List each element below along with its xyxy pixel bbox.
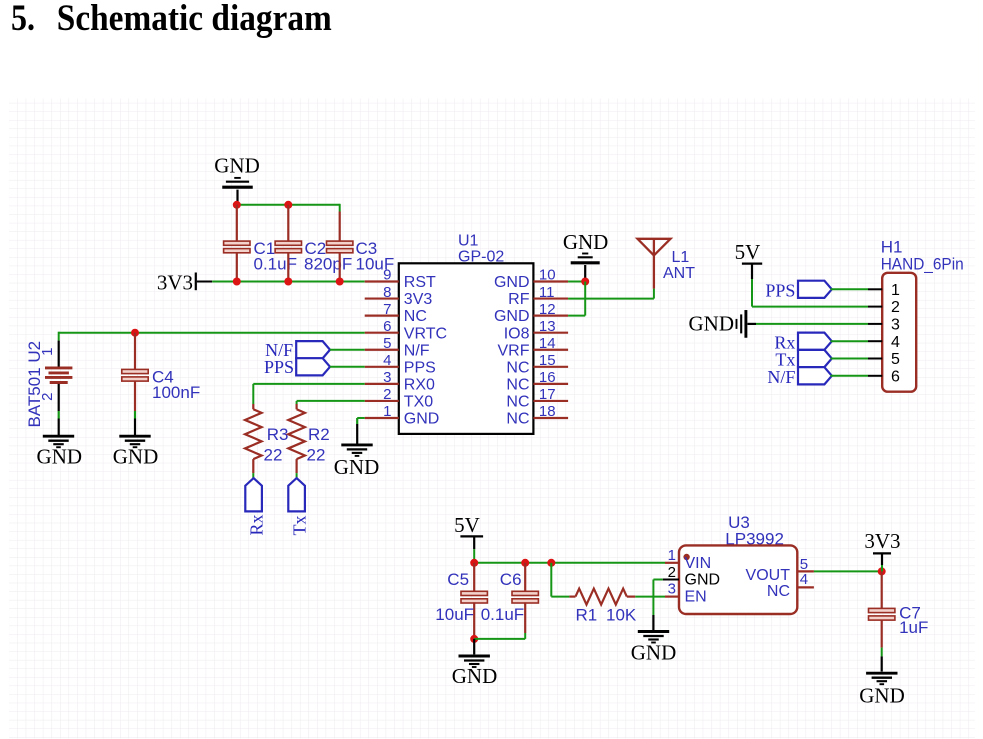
capacitor C6 top lead: [524, 563, 526, 592]
U1 pin 4 line: [365, 366, 399, 368]
net label GND (C7): [859, 684, 905, 708]
U1 pin number 1: [383, 403, 391, 420]
svg-text:R1: R1: [576, 605, 598, 624]
svg-text:1: 1: [891, 282, 900, 299]
U1 pin name GND (right): [494, 274, 530, 291]
svg-text:GND: GND: [404, 411, 440, 428]
wire 3V3 stub: [197, 281, 212, 283]
resistor R2 bottom lead: [296, 459, 298, 473]
net label GND (H1): [689, 312, 735, 336]
value 22 (R3): [264, 445, 283, 464]
value 22 (R2): [307, 445, 326, 464]
value 100nF: [152, 383, 200, 402]
wire RX0 horizontal: [253, 383, 364, 385]
svg-text:L1: L1: [672, 249, 690, 266]
svg-text:5V: 5V: [735, 240, 761, 264]
wire PPS to pin4: [330, 366, 365, 368]
svg-text:GND: GND: [494, 308, 530, 325]
svg-text:17: 17: [539, 386, 556, 403]
svg-text:11: 11: [539, 284, 555, 301]
wire pin1 to ground: [357, 417, 365, 419]
U1 pin name GND: [404, 411, 440, 428]
U3 pin 1 line: [665, 562, 679, 564]
svg-text:R2: R2: [308, 425, 330, 444]
U1 pin name VRTC: [404, 325, 447, 342]
U1 pin name PPS: [404, 359, 436, 376]
label C4: [152, 367, 174, 386]
wire 5V stem (U3): [473, 536, 475, 562]
U1 pin name NC (right): [506, 359, 529, 376]
wire 5V rail to VIN: [474, 562, 665, 564]
wire PPS to H1 pin1: [831, 288, 869, 290]
U1 pin name TX0: [404, 394, 433, 411]
H1 pin 5 line: [868, 358, 882, 360]
svg-text:1: 1: [383, 403, 391, 420]
wire battery rail: [59, 332, 365, 334]
ground U1 pin1: [341, 445, 372, 456]
svg-text:GND: GND: [494, 274, 530, 291]
svg-text:GND: GND: [685, 572, 721, 589]
wire Tx to H1 pin5: [831, 358, 869, 360]
capacitor C3 bottom lead: [339, 252, 341, 281]
wire pin10 to junction: [568, 281, 585, 283]
wire RX0 down: [252, 384, 254, 404]
U1 pin 18 line: [533, 417, 568, 419]
node junction C1 top: [233, 201, 241, 209]
resistor R1 right lead: [627, 595, 636, 597]
capacitor C1 bottom lead: [236, 252, 238, 281]
resistor R3 top lead: [252, 404, 254, 409]
battery pin 2 number: [39, 393, 56, 401]
value 10uF: [356, 255, 395, 274]
svg-text:0.1uF: 0.1uF: [254, 255, 297, 274]
svg-text:C6: C6: [500, 570, 522, 589]
net label GND (C5): [452, 664, 498, 688]
resistor R2: [288, 409, 305, 459]
resistor R2 top lead: [296, 404, 298, 409]
U1 pin name 3V3: [404, 291, 433, 308]
capacitor C2: [275, 241, 301, 253]
svg-text:0.1uF: 0.1uF: [481, 605, 524, 624]
svg-text:GND: GND: [334, 455, 380, 479]
U1 pin 14 line: [533, 349, 568, 351]
capacitor C7 top lead: [881, 571, 883, 608]
U3 pin 4 line: [797, 586, 814, 588]
U1 pin number 7: [383, 301, 391, 318]
designator L1: [672, 249, 690, 266]
wire VOUT to 3V3 node: [814, 570, 882, 572]
svg-text:PPS: PPS: [765, 281, 795, 301]
U1 pin name N/F: [404, 342, 430, 359]
U1 pin 9 line: [365, 280, 399, 282]
U3 pin name VOUT: [746, 567, 791, 584]
svg-text:VOUT: VOUT: [746, 567, 791, 584]
wire to pin12: [568, 315, 585, 317]
svg-text:4: 4: [383, 352, 391, 369]
ground C7: [866, 673, 897, 684]
wire Rx to H1 pin4: [831, 340, 869, 342]
svg-text:4: 4: [891, 334, 900, 351]
designator U2 BAT501: [25, 341, 44, 428]
svg-text:N/F: N/F: [767, 367, 795, 387]
U1 pin number 3: [383, 369, 391, 386]
U3 pin number 1: [668, 547, 676, 564]
port Tx: [288, 478, 305, 511]
svg-text:3: 3: [891, 317, 900, 334]
label C6: [500, 570, 522, 589]
svg-text:NC: NC: [506, 376, 529, 393]
capacitor C1: [224, 241, 250, 253]
wire R1 node down: [550, 563, 552, 597]
svg-text:RX0: RX0: [404, 376, 435, 393]
port N/F (U1): [296, 341, 330, 358]
antenna L1 symbol: [638, 239, 671, 289]
port PPS (U1): [296, 358, 330, 375]
net label GND (pin10): [563, 230, 609, 254]
U1 pin number 2: [383, 386, 391, 403]
svg-text:NC: NC: [506, 394, 529, 411]
U1 pin number 13: [539, 318, 556, 335]
value LP3992: [725, 530, 784, 549]
svg-text:GND: GND: [452, 664, 498, 688]
U1 pin 10 line: [533, 280, 568, 282]
U1 pin 15 line: [533, 366, 568, 368]
svg-text:7: 7: [383, 301, 391, 318]
svg-text:3V3: 3V3: [404, 291, 433, 308]
value HAND_6Pin: [881, 255, 964, 274]
svg-text:U1: U1: [458, 232, 479, 249]
node junction C2 bottom: [284, 278, 292, 286]
svg-text:TX0: TX0: [404, 394, 433, 411]
regulator U3 body: [679, 545, 797, 614]
title heading number: [11, 0, 35, 39]
U1 pin 13 line: [533, 332, 568, 334]
port N/F (H1): [798, 367, 832, 384]
svg-text:10: 10: [539, 267, 556, 284]
U1 pin number 15: [539, 352, 556, 369]
wire U3 GND pin: [653, 579, 662, 581]
power port 3V3: [157, 270, 193, 294]
title heading text: [57, 0, 332, 39]
svg-text:820pF: 820pF: [304, 255, 352, 274]
U3 pin name VIN: [685, 555, 712, 572]
svg-text:H1: H1: [881, 237, 903, 256]
wire cap bank top: [237, 204, 340, 206]
capacitor C3: [327, 241, 353, 253]
U1 pin 3 line: [365, 383, 399, 385]
svg-text:EN: EN: [685, 589, 707, 606]
svg-text:GND: GND: [859, 684, 905, 708]
U1 pin number 5: [383, 335, 391, 352]
U1 pin 17 line: [533, 400, 568, 402]
designator H1: [881, 237, 903, 256]
svg-text:14: 14: [539, 335, 556, 352]
capacitor C2 bottom lead: [287, 252, 289, 281]
svg-text:3: 3: [668, 581, 676, 598]
label R3: [267, 425, 289, 444]
capacitor C4 bottom lead: [134, 381, 136, 436]
U3 pin number 4: [800, 571, 808, 588]
wire junction down to pin12 row: [584, 282, 586, 316]
wire ground to H1 pin3: [748, 323, 869, 325]
svg-text:22: 22: [264, 445, 283, 464]
svg-text:NC: NC: [767, 583, 790, 600]
connector H1 body: [882, 273, 916, 392]
svg-text:1: 1: [668, 547, 676, 564]
U1 pin number 14: [539, 335, 556, 352]
node junction C2 top: [284, 201, 292, 209]
H1 pin 2 line: [868, 306, 882, 308]
U3 pin name EN: [685, 589, 707, 606]
svg-text:GND: GND: [113, 445, 159, 469]
port label Rx (H1): [774, 332, 795, 352]
U1 pin number 4: [383, 352, 391, 369]
U1 pin number 10: [539, 267, 556, 284]
battery U2 top lead: [58, 341, 60, 367]
svg-text:16: 16: [539, 369, 556, 386]
wire TX0 down: [296, 401, 298, 404]
resistor R1: [576, 589, 627, 605]
U1 pin 8 line: [365, 297, 399, 299]
U1 pin number 9: [383, 267, 391, 284]
svg-text:1uF: 1uF: [899, 618, 928, 637]
svg-text:GND: GND: [689, 312, 735, 336]
port label N/F (H1): [767, 367, 795, 387]
wire R2 to Tx flag: [296, 473, 298, 479]
node junction C1 bottom: [233, 278, 241, 286]
wire RF to antenna: [568, 298, 654, 300]
U1 pin 16 line: [533, 383, 568, 385]
net label GND (C4): [113, 445, 159, 469]
node junction C5 bottom: [470, 635, 478, 643]
U3 pin 2 line: [663, 579, 679, 581]
label C1: [254, 239, 276, 258]
svg-text:Schematic diagram: Schematic diagram: [57, 0, 332, 39]
svg-text:10uF: 10uF: [435, 605, 474, 624]
svg-text:IO8: IO8: [504, 325, 530, 342]
U1 pin number 11: [539, 284, 555, 301]
port label PPS (U1): [264, 357, 294, 377]
capacitor C3 top lead: [339, 212, 341, 242]
svg-text:5V: 5V: [454, 513, 480, 537]
svg-text:N/F: N/F: [404, 342, 430, 359]
ground C4: [119, 436, 150, 447]
U1 pin name GND (right): [494, 308, 530, 325]
capacitor C5 bottom lead: [473, 602, 475, 639]
svg-text:15: 15: [539, 352, 556, 369]
value 0.1uF: [481, 605, 524, 624]
resistor R1 left lead: [569, 595, 575, 597]
power port 5V (H1): [735, 240, 761, 264]
U1 pin number 16: [539, 369, 556, 386]
wire 3V3 stem (U3): [881, 553, 883, 571]
svg-text:RF: RF: [508, 291, 530, 308]
label R1: [576, 605, 598, 624]
svg-text:RST: RST: [404, 274, 436, 291]
port PPS (H1): [798, 281, 832, 298]
U1 pin number 18: [539, 403, 556, 420]
net label GND (top cap bank): [214, 154, 260, 178]
svg-text:R3: R3: [267, 425, 289, 444]
U3 pin 3 line: [665, 595, 679, 597]
port Tx (H1): [798, 350, 832, 367]
svg-text:Tx: Tx: [290, 516, 310, 536]
H1 pin number 4: [891, 334, 900, 351]
U3 pin name GND: [685, 572, 721, 589]
U1 pin number 17: [539, 386, 556, 403]
value 10K: [606, 605, 637, 624]
node junction C4 top: [131, 329, 139, 337]
wire ground stem to node: [236, 190, 238, 205]
svg-text:3V3: 3V3: [157, 270, 193, 294]
U1 pin 2 line: [365, 400, 399, 402]
net label GND (U3): [631, 641, 677, 665]
svg-text:NC: NC: [506, 411, 529, 428]
svg-text:VIN: VIN: [685, 555, 712, 572]
H1 pin 3 line: [868, 323, 882, 325]
wire ground stem pin10: [584, 265, 586, 282]
op IC U1 body: [399, 263, 534, 434]
U1 pin 1 line: [365, 417, 399, 419]
svg-text:4: 4: [800, 571, 808, 588]
H1 pin number 2: [891, 299, 900, 316]
capacitor C6 bottom lead: [524, 602, 526, 639]
wire battery corner: [58, 332, 60, 341]
ground U3: [638, 632, 669, 643]
battery U2 plates: [45, 368, 72, 383]
capacitor C2 top lead: [287, 205, 289, 242]
svg-text:8: 8: [383, 284, 391, 301]
svg-text:GND: GND: [631, 641, 677, 665]
H1 pin number 5: [891, 351, 900, 368]
ground sideways (H1): [737, 310, 746, 338]
power port 5V bar (U3): [460, 535, 483, 537]
svg-text:2: 2: [383, 386, 391, 403]
wire 3V3 rail: [212, 281, 365, 283]
wire pin1 ground stem: [356, 418, 358, 444]
power port 3V3 bar: [195, 273, 197, 291]
wire 5V to H1 pin2: [752, 306, 868, 308]
value 0.1uF: [254, 255, 297, 274]
U3 pin number 5: [800, 556, 808, 573]
svg-text:PPS: PPS: [264, 357, 294, 377]
port label Tx (H1): [775, 350, 795, 370]
svg-text:2: 2: [891, 299, 900, 316]
label R2: [308, 425, 330, 444]
power port 5V bar (H1): [742, 263, 762, 265]
svg-text:12: 12: [539, 301, 556, 318]
node junction R1 top: [547, 559, 555, 567]
ground battery: [43, 436, 74, 447]
svg-text:NC: NC: [404, 308, 427, 325]
port label N/F (U1): [265, 340, 293, 360]
wire N/F to pin5: [330, 349, 365, 351]
U1 pin number 12: [539, 301, 556, 318]
port label PPS (H1): [765, 281, 795, 301]
designator U1: [458, 232, 479, 249]
svg-text:GND: GND: [563, 230, 609, 254]
value 1uF: [899, 618, 928, 637]
U1 pin number 6: [383, 318, 391, 335]
value 820pF: [304, 255, 352, 274]
value ANT: [663, 265, 695, 282]
power port 5V (U3): [454, 513, 480, 537]
svg-text:ANT: ANT: [663, 265, 695, 282]
capacitor C7 bottom lead: [881, 620, 883, 672]
resistor R3 bottom lead: [252, 459, 254, 473]
svg-text:GND: GND: [214, 154, 260, 178]
wire R3 to Rx flag: [252, 473, 254, 479]
node junction C3 bottom: [336, 278, 344, 286]
U3 pin number 3: [668, 581, 676, 598]
capacitor C6: [512, 591, 538, 603]
svg-text:HAND_6Pin: HAND_6Pin: [881, 255, 964, 274]
node junction pin10: [581, 278, 589, 286]
svg-text:PPS: PPS: [404, 359, 436, 376]
svg-text:C5: C5: [447, 570, 469, 589]
capacitor C7: [869, 608, 895, 620]
node junction 3V3: [878, 567, 886, 575]
H1 pin number 6: [891, 368, 900, 385]
designator U3: [728, 513, 750, 532]
U3 pin number 2: [668, 564, 676, 581]
node junction C6 top: [521, 559, 529, 567]
U1 pin name RF (right): [508, 291, 530, 308]
U3 pin 1 marker dot: [683, 554, 689, 560]
label C3: [356, 239, 378, 258]
ground (flipped) top cap bank: [222, 178, 253, 187]
wire N/F to H1 pin6: [831, 375, 869, 377]
node junction C5 top: [470, 559, 478, 567]
U1 pin name IO8 (right): [504, 325, 530, 342]
wire antenna stem green: [653, 289, 655, 299]
svg-text:BAT501 U2: BAT501 U2: [25, 341, 44, 428]
label C2: [305, 239, 327, 258]
wire U3 GND down: [652, 580, 654, 631]
battery U2 bottom lead: [58, 384, 60, 435]
svg-text:GND: GND: [37, 445, 83, 469]
U1 pin 11 line: [533, 297, 568, 299]
H1 pin 6 line: [868, 375, 882, 377]
U1 pin name RX0: [404, 376, 435, 393]
U1 pin name VRF (right): [498, 342, 530, 359]
svg-text:5: 5: [891, 351, 900, 368]
svg-text:VRTC: VRTC: [404, 325, 447, 342]
U1 pin 6 line: [365, 332, 399, 334]
power port 3V3 bar (U3): [873, 552, 891, 554]
wire C3 top corner: [339, 204, 341, 212]
svg-text:3: 3: [383, 369, 391, 386]
U1 pin 7 line: [365, 315, 399, 317]
svg-text:GP-02: GP-02: [458, 248, 504, 265]
wire C5-C6 bottom: [474, 638, 525, 640]
ground C5: [459, 656, 490, 667]
svg-text:6: 6: [891, 368, 900, 385]
wire to R1: [551, 596, 569, 598]
port label Tx: [290, 516, 310, 536]
U1 pin name NC (right): [506, 394, 529, 411]
capacitor C5: [461, 591, 487, 603]
H1 pin 1 line: [868, 288, 882, 290]
svg-text:18: 18: [539, 403, 556, 420]
svg-text:5.: 5.: [11, 0, 35, 39]
svg-text:10K: 10K: [606, 605, 637, 624]
svg-text:6: 6: [383, 318, 391, 335]
svg-text:Rx: Rx: [247, 514, 267, 535]
U3 pin name NC: [767, 583, 790, 600]
U1 pin name NC: [404, 308, 427, 325]
value 10uF: [435, 605, 474, 624]
